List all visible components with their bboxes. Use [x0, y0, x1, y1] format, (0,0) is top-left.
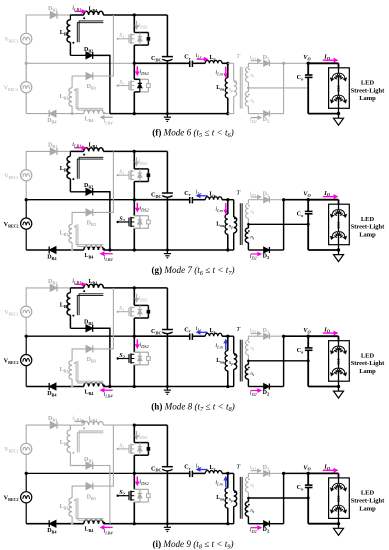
wire Vo to lamp (h)	[308, 336, 338, 341]
wire Vo to lamp (i)	[308, 473, 338, 478]
svg-text:ns: ns	[250, 484, 254, 489]
inductor Lr (f)	[192, 55, 227, 63]
ground at lamp (i)	[334, 524, 344, 536]
capacitor CDC (i)	[151, 425, 173, 524]
wire center tap return (i)	[248, 497, 308, 499]
svg-text:LB2: LB2	[60, 30, 69, 37]
svg-text:D2: D2	[263, 527, 270, 534]
wire DB2 to bottom rail (f)	[93, 55, 110, 113]
svg-text:Lamp: Lamp	[359, 368, 376, 375]
diode D2 (g)	[248, 247, 283, 260]
inductor LB1 (g)	[83, 143, 103, 156]
wire D1/D2 cathode join (h)	[282, 335, 285, 387]
current label iDS1 (i)	[135, 431, 148, 440]
inductor LB4 (f)	[84, 110, 110, 123]
svg-text:DB4: DB4	[47, 528, 57, 535]
svg-text:LB4: LB4	[85, 117, 95, 124]
caption (f)	[152, 127, 233, 139]
svg-text:Street-Light: Street-Light	[351, 497, 385, 504]
inductor LB3 (i)	[60, 498, 76, 525]
caption (i)	[153, 539, 234, 550]
wire bottom rail DB2-node to S2 (g)	[110, 249, 134, 251]
diode D2 (f)	[248, 111, 283, 124]
svg-text:ns: ns	[250, 74, 254, 79]
wire VREC1 to mid rail (g)	[25, 181, 27, 200]
wire center tap return (h)	[248, 360, 308, 362]
diode D2 (h)	[248, 384, 283, 397]
node half-bridge midpoint (f)	[133, 62, 136, 65]
node Lr/Lm (h)	[226, 335, 229, 338]
ground at CDC (g)	[164, 250, 171, 258]
svg-text:DB4: DB4	[47, 391, 57, 398]
svg-text:D2: D2	[263, 253, 270, 260]
wire output bottom (i)	[308, 522, 340, 525]
junction center-tap/Co (i)	[307, 497, 310, 500]
diode DB1 (i)	[48, 416, 70, 429]
mid rail to Cr (g)	[134, 199, 189, 201]
current label iDS1 (h)	[135, 294, 148, 303]
wire bottom rail DB2-node to S2 (i)	[110, 523, 134, 525]
svg-text:DB2: DB2	[84, 183, 93, 190]
mid rail to Cr (i)	[134, 472, 189, 474]
coupled core LB1/LB2 (g)	[77, 157, 103, 178]
current label iD2 (f)	[250, 116, 261, 124]
current label Io (f)	[323, 53, 338, 62]
LED lamp internals (h)	[331, 341, 347, 387]
node Vo (g)	[303, 191, 311, 202]
svg-text:LB3: LB3	[60, 367, 69, 374]
label LED street-light lamp (f)	[351, 79, 385, 102]
wire D1/D2 cathode join (i)	[282, 472, 285, 524]
current label iLB4 (h)	[101, 389, 114, 399]
transformer primary winding (g)	[228, 200, 237, 250]
mid rail to Cr (h)	[134, 335, 189, 337]
wire Vo to lamp (g)	[308, 200, 338, 205]
current label iD1 (g)	[250, 191, 261, 198]
wire rectifier to Vo (f)	[284, 62, 309, 64]
label LED street-light lamp (i)	[351, 490, 385, 513]
svg-text:ns: ns	[250, 210, 254, 215]
current label iLr (i)	[196, 462, 208, 471]
diode DB3 branch (g)	[72, 151, 113, 227]
capacitor Cr (f)	[184, 53, 192, 67]
capacitor CDC (g)	[151, 151, 173, 250]
transformer primary winding (f)	[228, 63, 237, 113]
wire bottom rail DB2-node to S2 (f)	[110, 113, 134, 115]
svg-text:D1: D1	[263, 465, 270, 472]
diode DB3 branch (f)	[72, 15, 113, 91]
coupled core LB3/LB4 (f)	[76, 88, 103, 110]
transformer secondary bottom winding (f)	[245, 88, 255, 114]
coupled core LB3/LB4 (g)	[76, 224, 103, 246]
svg-text:ns: ns	[250, 235, 254, 240]
coupled core LB1/LB2 (i)	[77, 431, 103, 452]
diode DB3 branch (h)	[72, 288, 113, 364]
current label iLr (h)	[196, 325, 208, 334]
svg-text:DB1: DB1	[48, 6, 57, 13]
svg-text:DB2: DB2	[84, 47, 93, 54]
transformer core T (g)	[236, 190, 242, 245]
current label iLB1 (g)	[72, 141, 85, 150]
svg-text:(h) Mode 8 (t7 ≤ t < t8): (h) Mode 8 (t7 ≤ t < t8)	[151, 401, 234, 413]
svg-text:DB4: DB4	[47, 118, 57, 125]
switch S2 (f)	[117, 63, 151, 113]
LED lamp box (i)	[329, 478, 350, 519]
node center tap (g)	[247, 223, 250, 226]
inductor LB1 (f)	[83, 6, 103, 19]
wire D1/D2 cathode join (g)	[282, 198, 285, 250]
coupled core LB1/LB2 (h)	[77, 294, 103, 315]
voltage source VREC1 (f)	[4, 33, 32, 44]
svg-text:DB1: DB1	[48, 279, 57, 286]
current label iLB1 (h)	[72, 277, 85, 286]
transformer secondary top winding (h)	[245, 336, 254, 361]
inductor Lm (f)	[216, 63, 229, 115]
svg-text:Street-Light: Street-Light	[351, 224, 385, 231]
transformer secondary bottom winding (i)	[245, 498, 255, 524]
capacitor Cr (g)	[184, 190, 192, 204]
ground at CDC (h)	[164, 387, 171, 395]
diode D1 (g)	[248, 191, 283, 202]
current label iLr (f)	[196, 52, 208, 61]
voltage source VREC2 (h)	[4, 336, 32, 386]
inductor LB3 (f)	[60, 88, 76, 115]
transformer core T (i)	[236, 463, 242, 518]
svg-text:LB3: LB3	[60, 94, 69, 101]
svg-text:LED: LED	[361, 352, 374, 359]
svg-text:LB4: LB4	[85, 390, 95, 397]
node mid-rail-left + wire (f)	[25, 62, 135, 65]
diode DB3 branch (i)	[72, 425, 113, 501]
inductor LB2 branch (i)	[60, 425, 75, 465]
caption (g)	[152, 265, 235, 277]
top rail to CDC (f)	[133, 13, 168, 16]
svg-text:(f) Mode 6 (t5 ≤ t < t6): (f) Mode 6 (t5 ≤ t < t6)	[152, 127, 233, 139]
node Lr/Lm (g)	[226, 198, 229, 201]
transformer secondary top winding (f)	[245, 63, 254, 88]
current label Io (g)	[323, 190, 338, 199]
switch S1 (f)	[117, 15, 151, 63]
node half-bridge midpoint (i)	[133, 472, 136, 475]
LED lamp internals (f)	[331, 68, 347, 114]
coupled core LB1/LB2 (f)	[77, 21, 103, 42]
node half-bridge midpoint (h)	[133, 335, 136, 338]
inductor LB1 (h)	[83, 279, 103, 292]
wire output bottom (f)	[308, 112, 340, 115]
wire Vo to lamp (f)	[308, 63, 338, 68]
diode DB2 (h)	[70, 320, 93, 332]
svg-text:Lm: Lm	[216, 358, 224, 365]
svg-text:(g) Mode 7 (t6 ≤ t < t7): (g) Mode 7 (t6 ≤ t < t7)	[152, 265, 235, 277]
svg-text:np: np	[229, 88, 233, 93]
bottom rail mid (i)	[133, 522, 228, 525]
svg-text:Lr: Lr	[210, 465, 216, 472]
current label iDS2 (g)	[136, 203, 150, 213]
inductor Lr (h)	[192, 328, 227, 336]
svg-text:Lr: Lr	[210, 55, 216, 62]
bottom rail + diode DB4 (h)	[26, 383, 84, 397]
current label iDS2 (f)	[136, 66, 150, 76]
capacitor Co (i)	[297, 473, 313, 523]
node center tap (i)	[247, 497, 250, 500]
svg-text:LB1: LB1	[89, 279, 98, 286]
switch S2 (g)	[117, 200, 151, 250]
junction DB2/bottom rail (g)	[108, 248, 111, 251]
wire VREC1 to DB1 (i)	[26, 425, 50, 443]
LED lamp box (f)	[329, 68, 350, 109]
current label iLB4 (f)	[101, 116, 114, 126]
diode DB2 (g)	[70, 183, 93, 195]
ground at CDC (i)	[164, 524, 171, 532]
current label iLm (g)	[215, 203, 227, 214]
inductor Lm (g)	[216, 200, 229, 252]
svg-text:D1: D1	[263, 55, 270, 62]
wire D1/D2 cathode join (f)	[282, 62, 285, 114]
transformer core T (f)	[236, 53, 242, 108]
capacitor Co (h)	[297, 336, 313, 386]
switch S1 (g)	[117, 151, 151, 199]
switch S1 (i)	[117, 425, 151, 473]
node Lr/Lm (i)	[226, 472, 229, 475]
node mid-rail-left + wire (h)	[25, 335, 135, 338]
bottom rail mid (f)	[133, 112, 228, 115]
ground at lamp (h)	[334, 387, 344, 399]
bottom rail mid (g)	[133, 248, 228, 251]
current label iD1 (h)	[250, 328, 261, 335]
svg-text:D2: D2	[263, 390, 270, 397]
junction center-tap/Co (g)	[307, 223, 310, 226]
ground at CDC (f)	[164, 114, 171, 122]
svg-text:np: np	[229, 361, 233, 366]
svg-text:DB4: DB4	[47, 254, 57, 261]
svg-text:iD2: iD2	[250, 118, 257, 125]
transformer secondary top winding (i)	[245, 473, 254, 498]
svg-text:Lm: Lm	[216, 85, 224, 92]
svg-text:LB3: LB3	[60, 230, 69, 237]
svg-text:Lm: Lm	[216, 495, 224, 502]
svg-text:DB2: DB2	[84, 320, 93, 327]
current label iLm (f)	[215, 67, 227, 78]
inductor LB2 branch (g)	[60, 151, 75, 191]
top rail to CDC (h)	[133, 286, 168, 289]
ground at lamp (f)	[334, 114, 344, 126]
wire VREC1 to DB1 (h)	[26, 288, 50, 306]
LED lamp internals (g)	[331, 204, 347, 250]
current label iLB1 (f)	[72, 4, 85, 13]
node center tap (h)	[247, 360, 250, 363]
inductor LB3 (h)	[60, 361, 76, 388]
voltage source VREC2 (f)	[4, 63, 32, 113]
voltage source VREC1 (i)	[4, 443, 32, 454]
wire output bottom (h)	[308, 385, 340, 388]
wire center tap return (f)	[248, 87, 308, 89]
current label iLB4 (g)	[101, 252, 114, 262]
coupled core LB3/LB4 (h)	[76, 361, 103, 383]
ground at lamp (g)	[334, 250, 344, 262]
svg-text:LB2: LB2	[60, 303, 69, 310]
junction DB2/bottom rail (h)	[108, 385, 111, 388]
svg-text:iD2: iD2	[250, 391, 257, 398]
node Lr/Lm (f)	[226, 62, 229, 65]
voltage source VREC2 (g)	[4, 200, 32, 250]
wire VREC1 to DB1 (f)	[26, 15, 50, 33]
svg-text:ns: ns	[250, 346, 254, 351]
svg-text:DB1: DB1	[48, 416, 57, 423]
svg-text:LB1: LB1	[89, 6, 98, 13]
svg-text:DB1: DB1	[48, 142, 57, 149]
svg-text:LB4: LB4	[85, 527, 95, 534]
top rail to CDC (g)	[133, 150, 168, 153]
diode D1 (i)	[248, 465, 283, 476]
current label iLr (g)	[196, 189, 208, 198]
capacitor Cr (h)	[184, 326, 192, 340]
capacitor Co (g)	[297, 200, 313, 250]
svg-text:LB1: LB1	[89, 143, 98, 150]
switch S2 (h)	[117, 336, 151, 386]
svg-text:Street-Light: Street-Light	[351, 360, 385, 367]
svg-text:LB1: LB1	[89, 416, 98, 423]
svg-text:LB4: LB4	[85, 253, 95, 260]
caption (h)	[151, 401, 234, 413]
svg-text:ns: ns	[250, 509, 254, 514]
top rail LB1 section (i)	[70, 424, 134, 426]
bottom rail + diode DB4 (f)	[26, 110, 84, 124]
svg-text:(i) Mode 9 (t8 ≤ t < t9): (i) Mode 9 (t8 ≤ t < t9)	[153, 539, 234, 550]
top rail LB1 section (h)	[70, 287, 134, 289]
wire rectifier to Vo (g)	[284, 199, 309, 201]
wire DB2 to bottom rail (i)	[93, 466, 110, 524]
svg-text:DB3: DB3	[87, 84, 96, 91]
current label iD2 (h)	[250, 389, 261, 397]
transformer secondary bottom winding (g)	[245, 224, 255, 250]
svg-text:LB3: LB3	[60, 504, 69, 511]
current label iDS1 (f)	[135, 21, 148, 30]
wire VREC1 to DB1 (g)	[26, 151, 50, 169]
svg-text:D1: D1	[263, 191, 270, 198]
transformer core T (h)	[236, 326, 242, 381]
top rail LB1 section (f)	[70, 14, 134, 16]
coupled core LB3/LB4 (i)	[76, 498, 103, 520]
inductor LB4 (g)	[84, 246, 110, 259]
top rail LB1 section (g)	[70, 150, 134, 152]
wire output bottom (g)	[308, 248, 340, 251]
svg-text:LED: LED	[361, 490, 374, 497]
inductor LB4 (i)	[84, 520, 110, 533]
wire VREC1 to mid rail (h)	[25, 317, 27, 336]
current label iD1 (f)	[250, 55, 261, 62]
current label iDS2 (h)	[136, 339, 150, 349]
LED lamp box (g)	[329, 204, 350, 245]
label LED street-light lamp (g)	[351, 216, 385, 239]
switch S1 (h)	[117, 288, 151, 336]
inductor LB1 (i)	[83, 416, 103, 429]
current label iD1 (i)	[250, 465, 261, 472]
current label iD2 (i)	[250, 526, 261, 534]
LED lamp internals (i)	[331, 478, 347, 524]
current label iLB4 (i)	[101, 526, 114, 536]
node Vo (h)	[303, 327, 311, 338]
current label Io (h)	[323, 326, 338, 335]
svg-text:D2: D2	[263, 117, 270, 124]
capacitor CDC (f)	[151, 15, 173, 114]
current label Io (i)	[323, 464, 338, 473]
diode DB2 (i)	[70, 457, 93, 469]
capacitor Co (f)	[297, 63, 313, 113]
wire DB2 to bottom rail (h)	[93, 328, 110, 386]
svg-text:Lr: Lr	[210, 191, 216, 198]
wire rectifier to Vo (i)	[284, 472, 309, 474]
svg-text:np: np	[229, 498, 233, 503]
current label iLB1 (i)	[72, 415, 85, 424]
svg-text:Lr: Lr	[210, 328, 216, 335]
inductor LB2 branch (h)	[60, 288, 75, 328]
svg-text:Lamp: Lamp	[359, 232, 376, 239]
svg-text:DB3: DB3	[87, 494, 96, 501]
transformer secondary top winding (g)	[245, 200, 254, 225]
diode DB1 (h)	[48, 279, 70, 292]
voltage source VREC2 (i)	[4, 473, 32, 523]
bottom rail mid (h)	[133, 385, 228, 388]
current label iD2 (g)	[250, 252, 261, 260]
LED lamp box (h)	[329, 341, 350, 382]
wire VREC1 to mid rail (i)	[25, 455, 27, 474]
switch S2 (i)	[117, 473, 151, 523]
inductor Lm (i)	[216, 473, 229, 525]
wire center tap return (g)	[248, 223, 308, 225]
diode D1 (f)	[248, 55, 283, 66]
current label iDS2 (i)	[136, 476, 150, 486]
bottom rail + diode DB4 (g)	[26, 247, 84, 261]
node Vo (i)	[303, 464, 311, 475]
diode D2 (i)	[248, 521, 283, 534]
node mid-rail-left + wire (g)	[25, 198, 135, 201]
svg-text:DB3: DB3	[87, 357, 96, 364]
current label iLm (h)	[215, 340, 227, 351]
wire DB2 to bottom rail (g)	[93, 192, 110, 250]
diode DB1 (g)	[48, 142, 70, 155]
svg-text:np: np	[229, 224, 233, 229]
svg-text:ns: ns	[250, 372, 254, 377]
voltage source VREC1 (h)	[4, 306, 32, 317]
inductor LB4 (h)	[84, 383, 110, 396]
mid rail to Cr (f)	[134, 62, 189, 64]
svg-text:iD2: iD2	[250, 528, 257, 535]
diode DB2 (f)	[70, 47, 93, 59]
svg-text:Lamp: Lamp	[359, 505, 376, 512]
label LED street-light lamp (h)	[351, 352, 385, 375]
svg-text:D1: D1	[263, 328, 270, 335]
capacitor Cr (i)	[184, 464, 192, 478]
inductor LB3 (g)	[60, 224, 76, 251]
inductor Lr (g)	[192, 191, 227, 199]
svg-text:Lm: Lm	[216, 221, 224, 228]
top rail to CDC (i)	[133, 424, 168, 427]
bottom rail + diode DB4 (i)	[26, 520, 84, 534]
current label iDS1 (g)	[135, 157, 148, 166]
inductor LB2 branch (f)	[60, 15, 75, 55]
diode D1 (h)	[248, 328, 283, 339]
svg-text:LB2: LB2	[60, 440, 69, 447]
transformer primary winding (i)	[228, 473, 237, 523]
svg-text:DB2: DB2	[84, 457, 93, 464]
svg-text:DB3: DB3	[87, 221, 96, 228]
inductor Lm (h)	[216, 336, 229, 388]
voltage source VREC1 (g)	[4, 170, 32, 181]
node center tap (f)	[247, 87, 250, 90]
wire rectifier to Vo (h)	[284, 335, 309, 337]
wire VREC1 to mid rail (f)	[25, 44, 27, 63]
svg-text:ns: ns	[250, 99, 254, 104]
